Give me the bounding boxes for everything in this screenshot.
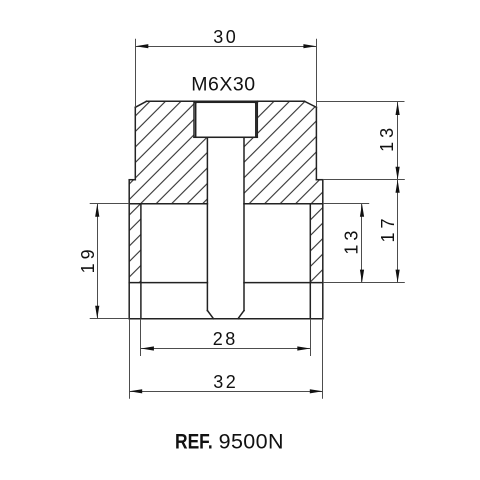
svg-text:32: 32 <box>213 372 238 392</box>
svg-text:17: 17 <box>378 214 398 242</box>
svg-text:13: 13 <box>377 124 397 152</box>
svg-text:19: 19 <box>78 245 98 273</box>
svg-text:30: 30 <box>213 27 238 47</box>
svg-text:M6X30: M6X30 <box>191 74 255 96</box>
svg-text:28: 28 <box>213 329 238 349</box>
svg-text:9500N: 9500N <box>219 430 284 454</box>
svg-text:REF.: REF. <box>175 430 213 454</box>
svg-text:13: 13 <box>342 227 362 255</box>
